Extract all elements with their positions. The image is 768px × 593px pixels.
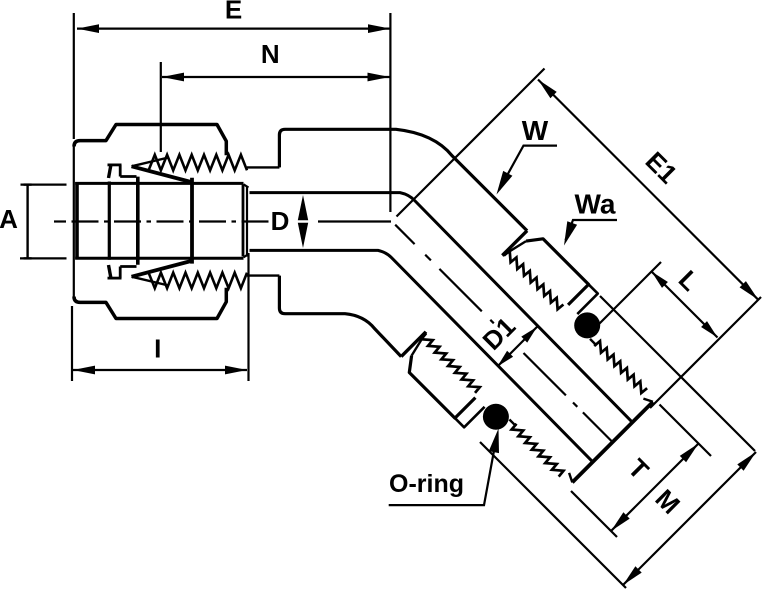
shank upper after O-ring <box>590 339 597 346</box>
nut thread top (engaged) <box>149 155 247 171</box>
dimension I extension right <box>247 253 249 381</box>
body shoulder at tube end <box>246 187 248 257</box>
step face upper <box>502 231 527 256</box>
dimension N extension left <box>160 62 162 152</box>
svg-text:O-ring: O-ring <box>389 470 464 498</box>
thread lead-in lower <box>412 332 427 356</box>
tube insert line 1 <box>108 182 111 260</box>
front ferrule cone top <box>132 166 194 182</box>
dimension M extension upper <box>600 296 755 451</box>
washer lower <box>455 407 485 428</box>
dimension L extension upper <box>592 262 661 331</box>
male thread upper band 1 <box>504 251 564 309</box>
back ferrule top claw <box>109 165 112 179</box>
dimension A line <box>26 185 28 259</box>
dimension E extension right <box>389 13 391 212</box>
O-ring upper (section) <box>574 312 600 338</box>
male thread lower band 1 <box>421 333 480 393</box>
nut thread bottom (engaged) <box>149 273 247 289</box>
locknut Wa lower profile <box>409 356 475 419</box>
back ferrule bottom claw <box>109 265 112 279</box>
tip chamfer upper <box>643 399 653 402</box>
tube nut left face <box>73 145 75 298</box>
tube nut outline bottom <box>74 288 226 319</box>
dimension E1 extension lower (tip face extension) <box>650 297 761 408</box>
svg-text:I: I <box>154 334 161 364</box>
dimension E line <box>77 28 390 30</box>
tube <box>75 182 79 260</box>
dimension E extension left <box>73 13 75 139</box>
locknut Wa upper profile <box>526 239 589 305</box>
dimension M line <box>623 452 756 585</box>
dimension N line <box>162 76 390 78</box>
male thread lower band 2 <box>512 424 564 477</box>
tube nut outline top <box>74 125 226 156</box>
dimension I extension left <box>71 306 73 381</box>
svg-text:N: N <box>261 39 280 69</box>
thread root line bottom <box>247 274 280 276</box>
dimension T line <box>611 444 699 532</box>
centerline arm <box>395 225 414 244</box>
thread lead-in upper <box>503 241 527 256</box>
step face lower <box>401 332 426 357</box>
svg-text:Wa: Wa <box>575 189 616 220</box>
dimension L line <box>652 272 718 338</box>
bore line top <box>250 193 633 423</box>
tip end face <box>572 402 653 483</box>
dimension I line <box>73 369 247 371</box>
washer upper <box>577 284 598 314</box>
svg-text:E: E <box>225 0 242 25</box>
svg-text:W: W <box>522 115 549 146</box>
front ferrule face <box>190 178 194 264</box>
dimension D1 arrow <box>497 327 537 367</box>
svg-text:D: D <box>271 206 290 236</box>
front ferrule cone bottom <box>132 261 194 277</box>
body lower profile into bend <box>279 276 401 357</box>
O-ring lower (section) <box>483 404 509 430</box>
back ferrule face <box>136 177 140 265</box>
shank lower after O-ring <box>509 420 516 427</box>
bore line bottom <box>250 250 593 462</box>
dimension E1 line <box>538 80 758 300</box>
dimension D arrow <box>298 195 308 220</box>
dimension M extension lower <box>480 442 626 588</box>
dimension E1 extension upper <box>397 69 545 217</box>
dimension T extension lower <box>571 491 617 537</box>
centerline horizontal <box>54 220 66 222</box>
male thread upper band 2 <box>594 341 647 393</box>
dimension A extension top <box>21 184 67 186</box>
dimension A extension bottom <box>20 257 67 259</box>
body upper profile into bend <box>279 129 527 230</box>
thread root line top <box>247 166 280 168</box>
dimension T extension upper <box>660 405 712 457</box>
tip chamfer lower <box>569 473 572 483</box>
tube end <box>242 185 245 257</box>
svg-text:A: A <box>0 204 18 234</box>
